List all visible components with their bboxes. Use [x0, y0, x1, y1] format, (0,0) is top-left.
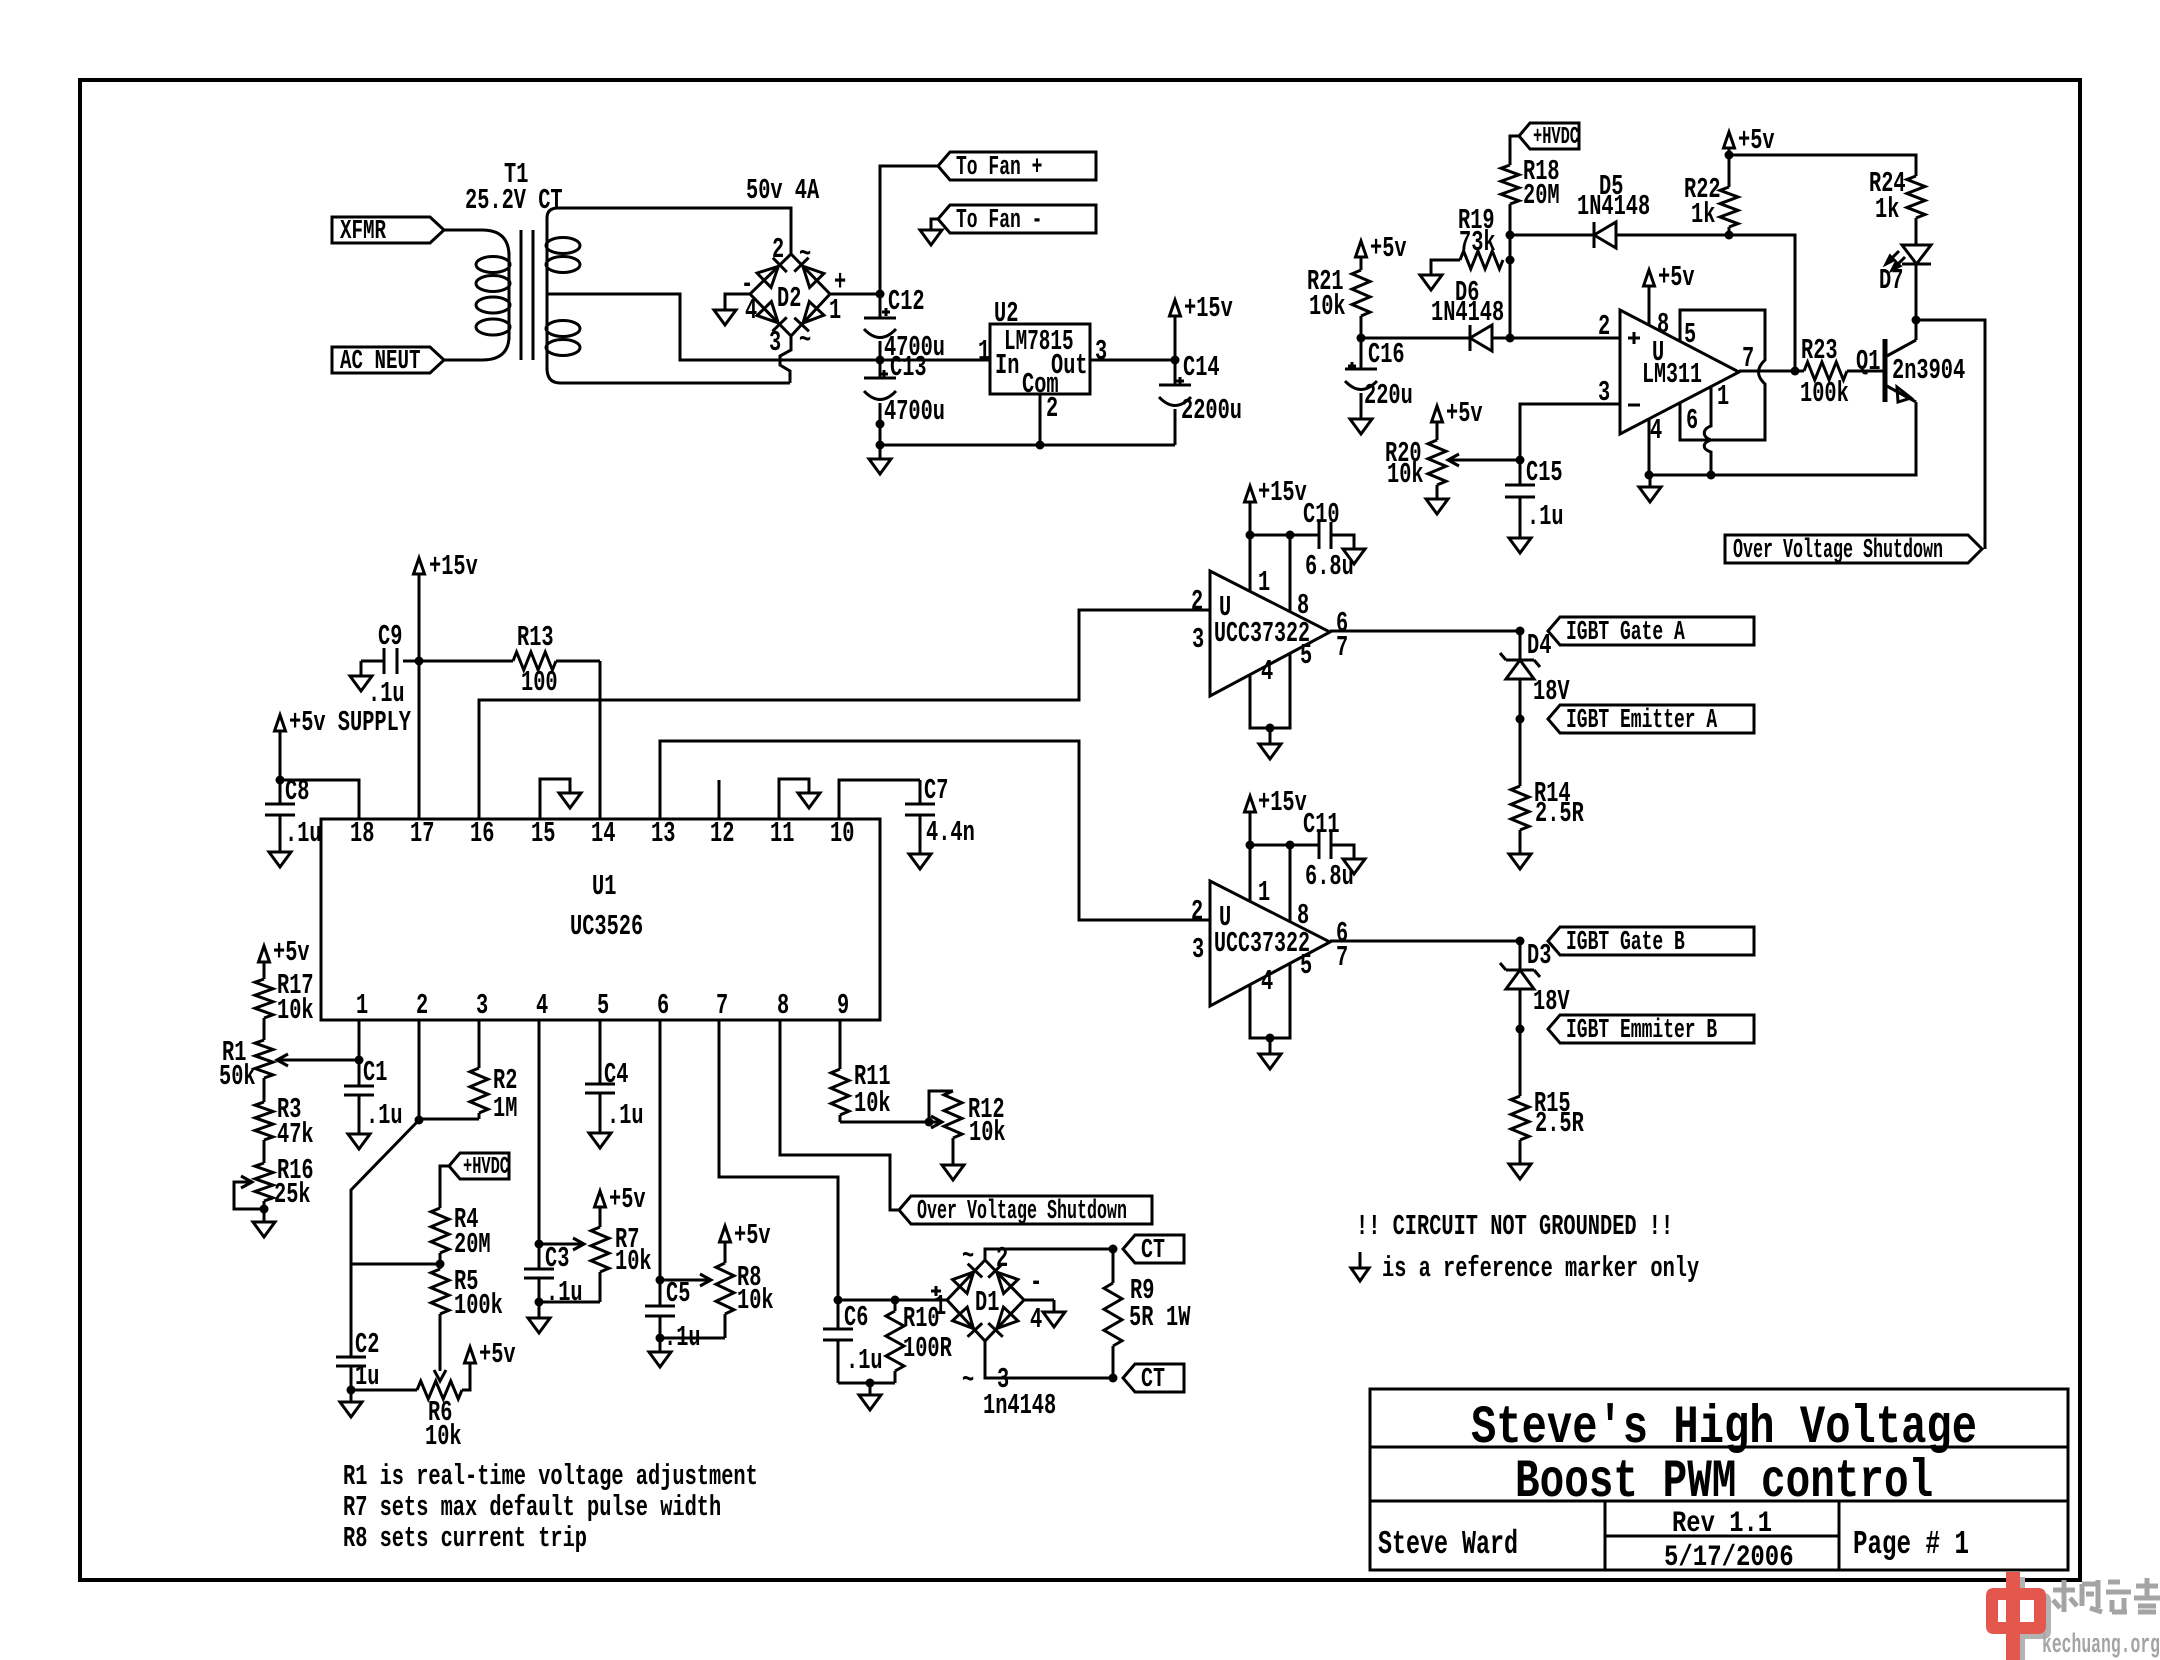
- pin 7 of U3: [1336, 631, 1348, 664]
- wire pin2 diagonal to C2: [351, 1120, 419, 1357]
- junction C9 node: [415, 657, 424, 666]
- label R8: [737, 1261, 761, 1294]
- title text Steves High Voltage: [1471, 1398, 1977, 1459]
- pin 1 of U3: [1258, 566, 1270, 599]
- pin 1 of D2: [829, 294, 841, 327]
- label 100: [521, 666, 558, 699]
- svg-text:Q1: Q1: [1856, 345, 1880, 378]
- label R17: [277, 969, 314, 1002]
- wire T1 secondary top to bridge D2 pin 2: [547, 208, 791, 254]
- wire D1 pin2 to CT: [985, 1249, 1113, 1260]
- ground at C6: [859, 1383, 881, 1410]
- wire to cap U3: [1250, 534, 1290, 537]
- label C5: [666, 1277, 690, 1310]
- svg-text:2: 2: [1191, 585, 1203, 618]
- pin 2 of D1: [996, 1242, 1008, 1275]
- svg-text:100: 100: [521, 666, 558, 699]
- label + input: [1628, 332, 1640, 344]
- junction C12 top: [876, 290, 885, 299]
- label UCC37322 U3: [1214, 617, 1310, 650]
- label 2.5R R14: [1535, 797, 1584, 830]
- bridge rectifier D1: [947, 1260, 1024, 1341]
- diode D5: [1594, 222, 1616, 248]
- wire D1 minus to ground: [1024, 1299, 1054, 1302]
- capacitor C1: [344, 1060, 374, 1134]
- svg-text:4: 4: [1261, 965, 1273, 998]
- potentiometer R8: [716, 1263, 734, 1338]
- label D4: [1527, 629, 1551, 662]
- capacitor C7: [905, 780, 935, 854]
- svg-text:1: 1: [1717, 380, 1729, 413]
- label R12: [968, 1093, 1005, 1126]
- svg-text:3: 3: [1192, 933, 1204, 966]
- junction C cap U4: [1286, 841, 1295, 850]
- label 50v 4A: [746, 174, 820, 207]
- svg-text:5: 5: [597, 989, 609, 1022]
- diode D6: [1470, 325, 1492, 351]
- label 73k: [1459, 226, 1496, 259]
- label 2200u: [1181, 394, 1242, 427]
- ground at rail: [869, 445, 891, 474]
- note reference marker: [1382, 1252, 1699, 1285]
- wire T1 center tap to C13 node: [547, 294, 880, 360]
- pin 2 of D2: [772, 233, 784, 266]
- wire C3 bottom to R7: [539, 1301, 600, 1304]
- svg-text:In: In: [995, 349, 1019, 382]
- svg-text:C16: C16: [1368, 338, 1405, 371]
- svg-text:IGBT Emmiter B: IGBT Emmiter B: [1566, 1016, 1717, 1046]
- svg-text:XFMR: XFMR: [340, 217, 387, 247]
- svg-text:7: 7: [1336, 631, 1348, 664]
- resistor R17: [255, 979, 273, 1018]
- wire to D6: [1361, 337, 1470, 340]
- node +HVDC flag top: [1519, 123, 1579, 151]
- svg-text:1: 1: [356, 989, 368, 1022]
- svg-text:2.5R: 2.5R: [1535, 797, 1584, 830]
- junction +5v R22: [1725, 151, 1734, 160]
- svg-text:10k: 10k: [425, 1420, 462, 1453]
- svg-text:C1: C1: [363, 1056, 387, 1089]
- svg-text:C8: C8: [285, 775, 309, 808]
- label D5: [1599, 170, 1623, 203]
- label 20M R4: [454, 1228, 491, 1261]
- wire C5 bottom to R8: [660, 1337, 725, 1340]
- label R15: [1534, 1087, 1571, 1120]
- wire R12 wiper arrow: [929, 1116, 942, 1128]
- wire +5v to R24: [1729, 155, 1916, 176]
- ground at R20: [1426, 485, 1448, 514]
- capacitor C2: [336, 1357, 366, 1390]
- pin 6 of U3: [1336, 607, 1348, 640]
- svg-text:D4: D4: [1527, 629, 1551, 662]
- svg-text:C11: C11: [1303, 808, 1340, 841]
- junction C13 bottom: [876, 420, 885, 429]
- ground at C16: [1350, 419, 1372, 434]
- junction +15v U4: [1246, 841, 1255, 850]
- junction Out node: [1171, 356, 1180, 365]
- power +5v at R6: [465, 1338, 516, 1371]
- resistor R18: [1501, 165, 1519, 204]
- ground at LM311 rail: [1639, 475, 1661, 502]
- junction CT top: [1109, 1245, 1118, 1254]
- label 2.5R R15: [1535, 1107, 1584, 1140]
- label D3: [1527, 939, 1551, 972]
- wire node to R19 node: [1509, 235, 1512, 260]
- svg-text:+5v SUPPLY: +5v SUPPLY: [289, 706, 411, 739]
- resistor R14: [1511, 786, 1529, 854]
- wire R1 wiper: [277, 1054, 359, 1066]
- comparator U LM311: [1620, 310, 1739, 434]
- potentiometer R12: [944, 1091, 962, 1138]
- pin 1 of LM311: [1717, 380, 1729, 413]
- U1 top pin numbers: [350, 817, 854, 850]
- label .1u C15: [1527, 500, 1564, 533]
- label ~ bottom D1: [962, 1364, 974, 1397]
- ground at D2 minus: [714, 310, 736, 325]
- potentiometer R1: [255, 1018, 273, 1078]
- label R22: [1684, 173, 1721, 206]
- ground at D1 minus: [1043, 1300, 1065, 1327]
- junction ground U4: [1266, 1034, 1275, 1043]
- wire pins 4 5 U3: [1250, 653, 1290, 728]
- power +5v at R17: [259, 936, 310, 979]
- svg-text:CT: CT: [1141, 1236, 1165, 1266]
- svg-text:D1: D1: [975, 1286, 999, 1319]
- reference marker symbol: [1351, 1252, 1369, 1281]
- svg-text:R13: R13: [517, 621, 554, 654]
- label C1: [363, 1056, 387, 1089]
- svg-text:9: 9: [837, 989, 849, 1022]
- svg-text:C9: C9: [378, 620, 402, 653]
- svg-text:.1u: .1u: [1527, 500, 1564, 533]
- junction pin 1 node: [355, 1056, 364, 1065]
- svg-text:D2: D2: [777, 282, 801, 315]
- svg-text:220u: 220u: [1364, 379, 1413, 412]
- resistor R22: [1720, 155, 1738, 235]
- svg-text:10k: 10k: [854, 1087, 891, 1120]
- svg-text:.1u: .1u: [546, 1276, 583, 1309]
- label C12: [888, 285, 925, 318]
- wire R18 to node: [1509, 204, 1512, 235]
- wire XFMR to T1 primary: [444, 230, 509, 256]
- junction R21 bottom: [1357, 334, 1366, 343]
- svg-text:20M: 20M: [454, 1228, 491, 1261]
- svg-text:1M: 1M: [493, 1092, 517, 1125]
- wire AC NEUT to T1 primary: [444, 336, 509, 360]
- label 4700u C13: [884, 395, 945, 428]
- wire pin 2: [418, 1020, 421, 1120]
- title text Boost PWM control: [1515, 1452, 1933, 1513]
- label 6.8u C10: [1305, 550, 1354, 583]
- svg-text:.1u: .1u: [846, 1344, 883, 1377]
- svg-text:R1 is real-time voltage adjust: R1 is real-time voltage adjustment: [343, 1460, 758, 1493]
- junction C5 bottom: [656, 1334, 665, 1343]
- wire D6 to pin 2: [1491, 337, 1620, 340]
- pin 8 of U4: [1297, 899, 1309, 932]
- ground at R14: [1509, 854, 1531, 869]
- junction R4 R5 node: [436, 1260, 445, 1269]
- svg-text:2: 2: [1046, 392, 1058, 425]
- capacitor C5: [645, 1280, 675, 1338]
- wire D2 plus to C12 node: [830, 293, 880, 296]
- svg-text:.1u: .1u: [285, 817, 322, 850]
- svg-text:.1u: .1u: [366, 1099, 403, 1132]
- ground at C8: [269, 852, 291, 867]
- label 100R: [903, 1332, 952, 1365]
- svg-text:25k: 25k: [274, 1178, 311, 1211]
- svg-text:UC3526: UC3526: [570, 910, 643, 943]
- resistor R10: [886, 1300, 904, 1383]
- label 10k R11: [854, 1087, 891, 1120]
- wire Com to rail: [1039, 394, 1042, 445]
- label R10: [903, 1302, 940, 1335]
- junction pin 4 node: [535, 1240, 544, 1249]
- svg-text:+5v: +5v: [734, 1219, 771, 1252]
- label C10: [1303, 498, 1340, 531]
- wire C2 to R6: [351, 1389, 417, 1392]
- svg-text:1k: 1k: [1875, 193, 1899, 226]
- junction gate A node: [1516, 627, 1525, 636]
- capacitor C10: [1290, 522, 1354, 549]
- potentiometer R20: [1428, 440, 1446, 485]
- svg-text:+5v: +5v: [1370, 232, 1407, 265]
- power +15v at pin 17: [414, 550, 478, 583]
- label 10k R6: [425, 1420, 462, 1453]
- svg-text:6: 6: [657, 989, 669, 1022]
- wire emitter A to R14: [1519, 719, 1522, 786]
- wire D7 to collector node: [1915, 264, 1918, 320]
- wire collector node to Q1: [1915, 320, 1918, 340]
- svg-text:+HVDC: +HVDC: [1533, 124, 1579, 151]
- note circuit not grounded: [1356, 1210, 1673, 1243]
- wire branch to R4/R5 node: [351, 1263, 440, 1266]
- ground at C1: [348, 1134, 370, 1149]
- svg-text:C7: C7: [924, 774, 948, 807]
- label 10k R21: [1309, 290, 1346, 323]
- pin 4 of LM311: [1650, 414, 1662, 447]
- title block frame: [1370, 1389, 2068, 1570]
- label 6.8u C11: [1305, 860, 1354, 893]
- pin 5 stub and loop: [1680, 310, 1765, 440]
- junction R18 bottom: [1506, 231, 1515, 240]
- wire to cap U4: [1250, 844, 1290, 847]
- svg-text:5/17/2006: 5/17/2006: [1664, 1541, 1794, 1575]
- svg-text:C12: C12: [888, 285, 925, 318]
- label R20: [1385, 437, 1422, 470]
- wire pin 3: [1520, 404, 1620, 460]
- label D1: [975, 1286, 999, 1319]
- svg-text:C14: C14: [1183, 351, 1220, 384]
- svg-text:1W: 1W: [1166, 1301, 1191, 1334]
- wire R11 to R12 wiper: [840, 1121, 929, 1124]
- node Over Voltage Shutdown flag left: [899, 1196, 1152, 1227]
- wire pins 4 5 U4: [1250, 963, 1290, 1038]
- note R1: [343, 1460, 758, 1493]
- svg-text:100k: 100k: [1800, 377, 1849, 410]
- svg-text:+15v: +15v: [1258, 786, 1307, 819]
- junction C15 node: [1516, 456, 1525, 465]
- label 5R: [1129, 1301, 1154, 1334]
- wire T1 secondary bottom to bridge D2 pin 3: [547, 368, 790, 383]
- wire R19 node to pin2 node: [1509, 260, 1512, 338]
- junction C13 top / In node: [876, 356, 885, 365]
- label T1: [504, 158, 528, 191]
- ground at R16: [253, 1209, 275, 1237]
- driver U UCC37322 U4: [1210, 881, 1330, 1006]
- svg-text:.1u: .1u: [368, 677, 405, 710]
- wire pin 1: [358, 1020, 361, 1060]
- wire C6 bottom to R10: [838, 1382, 895, 1385]
- junction collector node: [1912, 316, 1921, 325]
- svg-text:1: 1: [1258, 566, 1270, 599]
- wire D2 minus to ground: [725, 294, 750, 310]
- svg-text:10k: 10k: [737, 1284, 774, 1317]
- wire R13 to pin 14: [599, 661, 602, 819]
- label UC3526: [570, 910, 643, 943]
- node Over Voltage Shutdown flag right: [1725, 535, 1982, 566]
- label 4.4n: [926, 816, 975, 849]
- svg-text:R8 sets current trip: R8 sets current trip: [343, 1522, 587, 1555]
- junction rail pin4: [1645, 471, 1654, 480]
- wire R18 node to D5: [1510, 234, 1594, 237]
- svg-text:10k: 10k: [615, 1245, 652, 1278]
- svg-text:+5v: +5v: [1446, 397, 1483, 430]
- svg-text:73k: 73k: [1459, 226, 1496, 259]
- svg-text:1n4148: 1n4148: [983, 1389, 1056, 1422]
- pin 3 of D1: [997, 1363, 1009, 1396]
- svg-text:is a reference marker only: is a reference marker only: [1382, 1252, 1699, 1285]
- svg-text:3: 3: [1192, 623, 1204, 656]
- svg-text:6: 6: [1686, 404, 1698, 437]
- svg-text:+5v: +5v: [273, 936, 310, 969]
- wire emitter B to R15: [1519, 1029, 1522, 1096]
- wire U4 output: [1330, 940, 1520, 943]
- power +5v at R22: [1724, 124, 1775, 157]
- node IGBT Gate B flag: [1548, 927, 1754, 958]
- power +15v at C14: [1170, 292, 1233, 360]
- label D7: [1879, 264, 1903, 297]
- wire D3 to emitter node: [1519, 989, 1522, 1029]
- label C11: [1303, 808, 1340, 841]
- svg-text:20M: 20M: [1523, 179, 1560, 212]
- node IGBT Emmiter B flag: [1548, 1015, 1754, 1046]
- ground at C11: [1343, 859, 1365, 874]
- label 1k R22: [1691, 198, 1715, 231]
- wire pin 15 to ground: [540, 779, 570, 819]
- junction CT bottom: [1109, 1374, 1118, 1383]
- svg-text:4.4n: 4.4n: [926, 816, 975, 849]
- svg-text:11: 11: [770, 817, 794, 850]
- svg-text:3: 3: [1095, 335, 1107, 368]
- wire R5 to R6 wiper: [434, 1314, 446, 1381]
- svg-text:+15v: +15v: [429, 550, 478, 583]
- zener D3: [1500, 941, 1540, 989]
- wire D1 pin3 to CT: [985, 1341, 1113, 1378]
- junction Com rail: [1036, 441, 1045, 450]
- pin 4 of U4: [1261, 965, 1273, 998]
- wire pin 1 U3: [1249, 535, 1252, 591]
- ground at U3: [1259, 728, 1281, 759]
- svg-text:D3: D3: [1527, 939, 1551, 972]
- svg-text:1u: 1u: [355, 1360, 379, 1393]
- label 1N4148 D5: [1577, 190, 1650, 223]
- wire R24 to D7: [1915, 218, 1918, 245]
- pin 5 of LM311: [1684, 318, 1696, 351]
- svg-text:UCC37322: UCC37322: [1214, 617, 1310, 650]
- title text date: [1664, 1541, 1794, 1575]
- label - D2: [741, 268, 753, 301]
- pin 8 of LM311: [1657, 308, 1669, 341]
- transistor Q1 2n3904: [1885, 339, 1916, 402]
- svg-text:50k: 50k: [219, 1060, 256, 1093]
- resistor R3: [255, 1078, 273, 1140]
- power +5v at R7: [595, 1183, 646, 1227]
- pin 2 of LM311: [1598, 310, 1610, 343]
- LED D7: [1886, 245, 1931, 270]
- pin 1 of U4: [1258, 876, 1270, 909]
- ground at U4: [1259, 1038, 1281, 1069]
- svg-text:2200u: 2200u: [1181, 394, 1242, 427]
- label 47k: [277, 1118, 314, 1151]
- ground at R19: [1420, 275, 1442, 290]
- svg-text:10k: 10k: [1387, 458, 1424, 491]
- title text Page # 1: [1853, 1526, 1969, 1563]
- svg-text:C3: C3: [545, 1242, 569, 1275]
- svg-text:2: 2: [996, 1242, 1008, 1275]
- wire pin 8 to OVS flag: [780, 1020, 899, 1210]
- svg-text:47k: 47k: [277, 1118, 314, 1151]
- junction C6 node: [834, 1296, 843, 1305]
- label LM7815: [1004, 325, 1074, 358]
- capacitor C14: [1159, 360, 1191, 445]
- wire R20 wiper: [1448, 454, 1520, 466]
- junction gate B node: [1516, 937, 1525, 946]
- svg-text:2: 2: [1191, 895, 1203, 928]
- wire C6 node to D1: [838, 1299, 947, 1302]
- label C4: [604, 1058, 628, 1091]
- label .1u C9: [368, 677, 405, 710]
- title text Steve Ward: [1378, 1526, 1518, 1563]
- label C7: [924, 774, 948, 807]
- svg-text:7: 7: [1336, 941, 1348, 974]
- ground at C9: [350, 676, 372, 691]
- label 10k R20: [1387, 458, 1424, 491]
- power +15v at U3: [1245, 476, 1307, 535]
- capacitor C9: [361, 648, 419, 676]
- resistor R5: [431, 1264, 449, 1314]
- svg-text:8: 8: [1297, 899, 1309, 932]
- resistor R19: [1460, 251, 1503, 269]
- regulator U2 LM7815 box: [990, 324, 1090, 394]
- label ~ top D2: [799, 238, 811, 271]
- label .1u C1: [366, 1099, 403, 1132]
- svg-text:Steve Ward: Steve Ward: [1378, 1526, 1518, 1563]
- svg-text:8: 8: [777, 989, 789, 1022]
- svg-text:~: ~: [799, 238, 811, 271]
- label 20M: [1523, 179, 1560, 212]
- label 100k: [1800, 377, 1849, 410]
- node +HVDC flag at R4: [449, 1153, 509, 1181]
- label U U4: [1219, 901, 1231, 934]
- svg-text:kechuang.org: kechuang.org: [2042, 1631, 2160, 1660]
- wire pin 17 vertical: [418, 574, 421, 819]
- junction +15v U3: [1246, 531, 1255, 540]
- wire ground rail U2: [880, 444, 1175, 447]
- node XFMR flag: [332, 217, 444, 247]
- svg-text:C13: C13: [890, 351, 927, 384]
- label 1M: [493, 1092, 517, 1125]
- resistor R24: [1907, 176, 1925, 218]
